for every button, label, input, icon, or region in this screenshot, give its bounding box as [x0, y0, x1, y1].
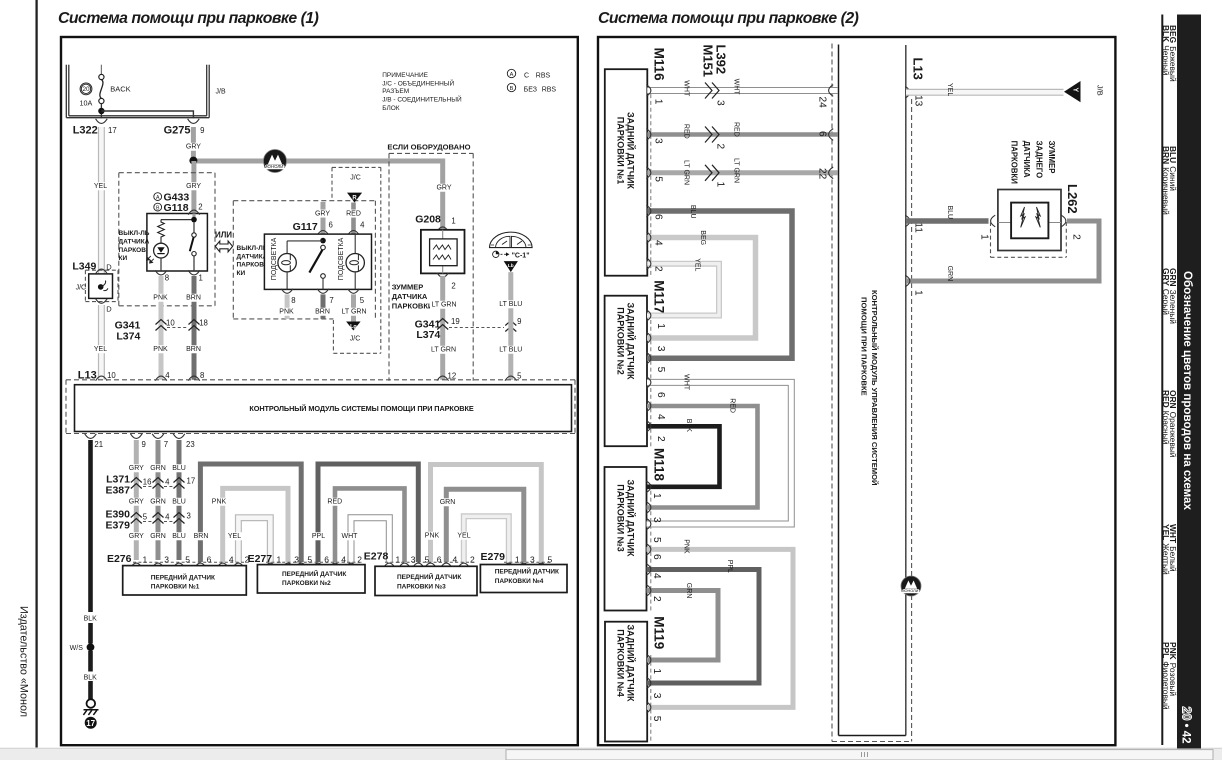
svg-text:1: 1 — [651, 668, 662, 674]
wire GRY G275 to junction — [191, 127, 196, 161]
svg-text:БЛОК: БЛОК — [382, 105, 400, 112]
svg-text:3: 3 — [411, 554, 416, 564]
svg-text:10: 10 — [107, 371, 116, 380]
svg-text:BACK: BACK — [110, 85, 130, 94]
M117 pin 1 — [646, 310, 651, 322]
svg-text:GRN: GRN — [150, 499, 166, 506]
loop labels group3 — [424, 532, 439, 540]
svg-text:10A: 10A — [80, 99, 93, 108]
label GRY at G117 — [315, 210, 330, 218]
svg-text:4: 4 — [651, 573, 662, 579]
svg-text:PPL: PPL — [312, 533, 325, 540]
scrollbar grip — [862, 752, 868, 757]
svg-text:ДАТЧИКА: ДАТЧИКА — [237, 253, 268, 260]
connector L371/E387 — [105, 474, 195, 497]
module pin 11 wire BLU to L262 — [905, 215, 910, 227]
svg-text:E276: E276 — [107, 553, 132, 565]
fuse 20 10A BACK — [80, 65, 131, 119]
svg-text:Издательство «Монол: Издательство «Монол — [18, 606, 30, 717]
svg-text:BRN: BRN — [194, 533, 209, 540]
note text — [382, 72, 462, 112]
svg-text:ЗАДНИЙ ДАТЧИК: ЗАДНИЙ ДАТЧИК — [626, 302, 637, 380]
svg-text:BLKЧерный: BLKЧерный — [1161, 25, 1171, 76]
wire WHT loop E277.2 to E278.1 — [351, 518, 389, 562]
E276 pin 2 — [233, 563, 245, 568]
wire YEL loop E276.2 to E277.1 — [238, 518, 270, 562]
ground id 17 — [85, 717, 97, 729]
svg-text:A: A — [510, 72, 514, 78]
svg-text:17: 17 — [187, 477, 196, 486]
svg-text:3: 3 — [651, 693, 662, 699]
wire RED loop M117.4 to M118.3 — [647, 406, 758, 508]
module pin 6 right — [829, 129, 834, 141]
svg-text:3: 3 — [187, 512, 191, 521]
svg-text:4: 4 — [341, 554, 346, 564]
switch G433 box — [147, 214, 208, 272]
svg-text:10: 10 — [166, 319, 175, 328]
legend B BEZ RBS — [507, 83, 556, 93]
M117 pin 6 — [646, 377, 651, 389]
svg-text:LT GRN: LT GRN — [683, 160, 690, 185]
svg-text:BRN: BRN — [186, 346, 201, 353]
svg-text:J/B: J/B — [1096, 85, 1105, 96]
svg-text:ЗАДНИЙ ДАТЧИК: ЗАДНИЙ ДАТЧИК — [626, 479, 637, 557]
svg-text:2: 2 — [470, 554, 475, 564]
wire YEL L349 to L13 — [98, 305, 105, 380]
svg-text:17: 17 — [86, 719, 95, 728]
wire PNK loop E276.4 to E277.3 — [223, 488, 288, 562]
svg-text:GRY: GRY — [315, 210, 330, 217]
L392 break pin 3 — [705, 83, 719, 99]
svg-text:3: 3 — [651, 517, 662, 523]
wire YEL L13 to J/B arrow — [906, 89, 1064, 96]
svg-text:5: 5 — [548, 554, 553, 564]
svg-text:Lb: Lb — [508, 263, 514, 269]
svg-text:ДАТЧИКА: ДАТЧИКА — [119, 239, 150, 246]
M119 pin 3 — [646, 677, 651, 689]
buzzer rear text — [1010, 141, 1057, 185]
wire PNK G433 to module — [159, 276, 164, 380]
bus labels row3 — [129, 532, 144, 540]
module pin 12 — [437, 376, 449, 381]
svg-text:PNK: PNK — [279, 309, 294, 316]
J/C triangle R — [347, 193, 362, 203]
svg-text:GRY: GRY — [129, 533, 144, 540]
svg-text:5: 5 — [651, 537, 662, 543]
svg-text:4: 4 — [653, 240, 664, 246]
svg-text:3: 3 — [530, 554, 535, 564]
svg-text:BLU: BLU — [172, 499, 186, 506]
svg-text:R: R — [352, 195, 357, 201]
connector G275 pin 9 — [164, 119, 205, 137]
G433 pin 8 — [155, 270, 167, 275]
svg-text:1: 1 — [715, 182, 726, 188]
G433 pin 1 — [188, 270, 200, 275]
svg-text:REDКрасный: REDКрасный — [1161, 390, 1171, 445]
front sensor 4 box — [480, 565, 567, 593]
svg-text:J/C - ОБЪЕДИНЕННЫЙ: J/C - ОБЪЕДИНЕННЫЙ — [382, 79, 454, 88]
svg-text:21: 21 — [94, 440, 103, 449]
svg-text:RED: RED — [346, 210, 361, 217]
G117 pin 8 — [281, 289, 293, 294]
svg-text:RED: RED — [683, 124, 690, 139]
svg-text:E379: E379 — [105, 520, 130, 532]
loop labels group1 — [193, 532, 208, 540]
svg-text:6: 6 — [437, 554, 442, 564]
label PNK x2 — [153, 294, 168, 302]
control module box right — [839, 45, 906, 736]
svg-text:4: 4 — [165, 513, 170, 522]
switch G117 dashed boundary — [233, 200, 375, 202]
M116 pin 6 — [646, 205, 651, 217]
svg-text:ПАРКОВКИ №2: ПАРКОВКИ №2 — [615, 307, 625, 374]
svg-text:BEG: BEG — [699, 230, 706, 245]
svg-text:GRN: GRN — [946, 266, 953, 282]
svg-text:BRNКоричневый: BRNКоричневый — [1161, 146, 1171, 215]
svg-text:6: 6 — [651, 554, 662, 560]
panel 1 frame — [61, 37, 578, 745]
wire PPL loop E277.6 to E278.5 — [318, 464, 418, 562]
svg-text:GRY: GRY — [129, 499, 144, 506]
wire BRN G117 stub — [321, 294, 326, 319]
svg-text:PNK: PNK — [153, 295, 168, 302]
pin 2 chevron G433 — [188, 210, 200, 215]
svg-text:ВЫКЛ-ЛЬ: ВЫКЛ-ЛЬ — [237, 245, 268, 252]
wire GRY junction to G433 — [191, 161, 196, 214]
svg-text:M119: M119 — [652, 616, 667, 649]
svg-text:Система помощи при парковке (2: Система помощи при парковке (2) — [598, 10, 859, 27]
svg-text:1: 1 — [396, 554, 401, 564]
svg-text:RBS: RBS — [542, 86, 557, 93]
svg-text:L374: L374 — [116, 330, 140, 342]
svg-text:КИ: КИ — [119, 255, 128, 262]
connector L322 pin 17 — [73, 119, 117, 137]
svg-text:YEL: YEL — [946, 83, 953, 96]
svg-text:BLK: BLK — [84, 616, 98, 623]
E276 pin 5 — [173, 563, 185, 568]
svg-text:9: 9 — [200, 126, 204, 135]
svg-text:1: 1 — [653, 99, 664, 105]
svg-text:ЗУММЕР: ЗУММЕР — [1047, 141, 1056, 174]
svg-text:ПАРКОВКИ: ПАРКОВКИ — [392, 302, 434, 311]
M118 pin 3 — [646, 502, 651, 514]
E278 pin 4 — [441, 563, 453, 568]
node junction G275/GRY — [189, 157, 197, 165]
svg-text:M118: M118 — [652, 448, 667, 482]
svg-text:BRN: BRN — [186, 295, 201, 302]
E278 pin 6 — [425, 563, 437, 568]
wire inside J/B from fuse to G275 — [98, 108, 104, 114]
module pin 24 — [829, 85, 834, 97]
rear sensor 4 box — [605, 622, 647, 742]
svg-text:M151: M151 — [701, 45, 716, 78]
svg-text:22: 22 — [817, 168, 828, 180]
svg-text:RED: RED — [729, 398, 736, 413]
svg-text:МОНОЛИТ: МОНОЛИТ — [264, 164, 287, 169]
svg-text:ДАТЧИКА: ДАТЧИКА — [392, 292, 428, 301]
svg-text:PPLФиолетовый: PPLФиолетовый — [1161, 642, 1171, 710]
svg-text:12: 12 — [448, 372, 457, 381]
E279 pin 5 — [536, 563, 548, 568]
module bottom pins 21 9 7 23 — [85, 434, 195, 449]
svg-text:ПЕРЕДНИЙ ДАТЧИК: ПЕРЕДНИЙ ДАТЧИК — [397, 572, 461, 581]
svg-text:4: 4 — [165, 371, 170, 380]
svg-text:ПАРКОВКИ №4: ПАРКОВКИ №4 — [615, 629, 625, 696]
E278 pin 3 — [399, 563, 411, 568]
svg-text:GRY: GRY — [129, 465, 144, 472]
svg-text:9: 9 — [142, 440, 146, 449]
M119 pin 5 — [646, 702, 651, 714]
ground symbol — [83, 699, 98, 715]
svg-text:2: 2 — [655, 436, 666, 442]
svg-text:КОНТРОЛЬНЫЙ МОДУЛЬ УПРАВЛЕНИЯ: КОНТРОЛЬНЫЙ МОДУЛЬ УПРАВЛЕНИЯ СИСТЕМОЙ — [870, 290, 879, 485]
OR symbol ILI — [215, 231, 233, 252]
ESLI OBORUDOVANO dashed box — [389, 152, 473, 154]
panel 2 frame — [598, 37, 1115, 745]
svg-text:D: D — [106, 305, 112, 314]
svg-text:PNK: PNK — [153, 346, 168, 353]
wire BRN G433 to module — [192, 276, 197, 380]
svg-text:YEL: YEL — [94, 183, 107, 190]
svg-text:4: 4 — [453, 554, 458, 564]
svg-text:B: B — [156, 205, 160, 211]
svg-text:2: 2 — [357, 554, 362, 564]
svg-text:BRN: BRN — [315, 309, 330, 316]
svg-text:6: 6 — [324, 554, 329, 564]
svg-text:E278: E278 — [364, 551, 389, 563]
M116 boundary dashes — [650, 87, 652, 275]
svg-text:1: 1 — [913, 290, 924, 296]
svg-text:ПАРКОВКИ №1: ПАРКОВКИ №1 — [151, 584, 200, 591]
svg-text:GRY: GRY — [186, 144, 201, 151]
wire BLK module to ground — [88, 440, 93, 612]
svg-text:PPL: PPL — [726, 560, 733, 573]
svg-text:РАЗЪЕМ: РАЗЪЕМ — [382, 88, 409, 95]
connector E390/E379 — [105, 509, 190, 532]
E278 pin 5 — [413, 563, 425, 568]
svg-text:6: 6 — [329, 220, 333, 229]
svg-text:8: 8 — [200, 371, 204, 380]
wire GRN bus module to E276 pin3 — [156, 440, 161, 560]
M117 pin 4 — [646, 400, 651, 412]
G433 internal circuit — [147, 214, 197, 272]
monolit logo right — [901, 576, 921, 596]
svg-text:BLU: BLU — [689, 205, 696, 219]
svg-text:WHT: WHT — [342, 533, 359, 540]
wire BLK loop M117.2 to M118.1 — [647, 426, 720, 487]
svg-text:BLK: BLK — [84, 675, 98, 682]
rear sensor 3 box — [605, 467, 647, 611]
svg-text:ДАТЧИКА: ДАТЧИКА — [1022, 141, 1031, 178]
svg-text:YEL: YEL — [694, 258, 701, 271]
connector L13 pin 10 — [78, 370, 117, 382]
svg-text:19: 19 — [451, 317, 460, 326]
bus labels row2 — [129, 498, 144, 506]
svg-text:E387: E387 — [105, 485, 130, 497]
M116 pin 1 — [646, 85, 651, 97]
bus labels row1 — [129, 464, 144, 472]
E277 pin 2 — [345, 563, 357, 568]
wire YEL loop E278.2 to E279.1 — [464, 516, 509, 562]
E276 pin 1 — [131, 563, 143, 568]
svg-text:ВЫКЛ-ЛЬ: ВЫКЛ-ЛЬ — [119, 230, 150, 237]
legend GRN/GRY — [1161, 268, 1178, 324]
label GRY at G208 — [436, 184, 451, 192]
M116 pin 2 — [646, 258, 651, 270]
svg-text:ЗАДНЕГО: ЗАДНЕГО — [1035, 141, 1044, 179]
svg-text:7: 7 — [164, 440, 168, 449]
M118 pin 4 — [646, 564, 651, 576]
svg-text:WHT: WHT — [732, 79, 739, 96]
label BRN G117 — [315, 308, 330, 316]
wire GRN loop M118.2 to M119.1 — [647, 591, 719, 661]
buzzer G208 box — [421, 230, 465, 274]
left page rule — [35, 0, 37, 748]
wire GRN L262 to module pin 1 — [906, 221, 1099, 281]
gauge cluster icon C-1 — [490, 232, 533, 247]
svg-text:9: 9 — [517, 317, 521, 326]
svg-text:GRN: GRN — [685, 583, 692, 599]
sidebar black band — [1177, 15, 1201, 749]
svg-text:1: 1 — [277, 554, 282, 564]
svg-text:2: 2 — [1071, 234, 1082, 240]
junction block J/B — [66, 65, 226, 118]
buzzer L262 dashed boundary — [990, 222, 992, 257]
svg-text:13: 13 — [913, 95, 924, 107]
label BLK lower — [83, 674, 98, 682]
wire PNK loop E278.6 to E279.5 — [431, 465, 542, 563]
L392 break pin 2 — [705, 127, 719, 143]
M118 pin 6 — [646, 544, 651, 556]
svg-text:YELЖелтый: YELЖелтый — [1161, 524, 1171, 575]
E277 pin 5 — [295, 563, 307, 568]
svg-text:1: 1 — [979, 234, 990, 240]
svg-text:L322: L322 — [73, 125, 98, 137]
parking assist control module — [66, 380, 575, 434]
buzzer L262 box — [998, 190, 1061, 251]
svg-text:J/B: J/B — [216, 88, 226, 95]
wire RED from R to G117 pin 4 — [351, 203, 356, 235]
svg-text:4: 4 — [360, 220, 365, 229]
svg-text:КОНТРОЛЬНЫЙ МОДУЛЬ СИСТЕМЫ ПОМ: КОНТРОЛЬНЫЙ МОДУЛЬ СИСТЕМЫ ПОМОЩИ ПРИ ПА… — [249, 404, 473, 413]
svg-text:1: 1 — [451, 217, 455, 226]
svg-text:6: 6 — [817, 131, 828, 137]
svg-text:GRN: GRN — [150, 465, 166, 472]
M118 pin 2 — [646, 585, 651, 597]
svg-text:4: 4 — [655, 414, 666, 420]
svg-text:17: 17 — [108, 126, 117, 135]
svg-text:24: 24 — [817, 97, 828, 109]
svg-text:1: 1 — [655, 323, 666, 329]
M117 pin 3 — [646, 332, 651, 344]
svg-text:LT BLU: LT BLU — [499, 301, 522, 308]
svg-text:J/C: J/C — [76, 285, 87, 292]
E277 pin 1 — [265, 563, 277, 568]
svg-text:C: C — [524, 72, 529, 79]
svg-text:Обозначение цветов проводов на: Обозначение цветов проводов на схемах — [1181, 271, 1194, 511]
svg-text:BLK: BLK — [685, 419, 692, 433]
svg-text:B: B — [510, 86, 514, 92]
label GRY — [186, 143, 201, 151]
svg-text:ПОМОЩИ ПРИ ПАРКОВКЕ: ПОМОЩИ ПРИ ПАРКОВКЕ — [860, 297, 869, 396]
svg-text:BLU: BLU — [946, 206, 953, 220]
wire PNK loop M118.6 to M119.5 — [647, 549, 794, 707]
E277 pin 3 — [282, 563, 294, 568]
M116 pin 4 — [646, 232, 651, 244]
label RED — [346, 210, 361, 218]
wire YEL loop M116.2 to M117.1 — [647, 264, 719, 316]
rear sensor 1 box — [605, 69, 648, 276]
svg-text:PNK: PNK — [212, 499, 227, 506]
L392 break pin 1 — [705, 165, 719, 181]
svg-text:PNK: PNK — [425, 533, 440, 540]
L262 pin 2 — [1061, 215, 1066, 227]
svg-text:J/B - СОЕДИНИТЕЛЬНЫЙ: J/B - СОЕДИНИТЕЛЬНЫЙ — [382, 95, 462, 104]
svg-text:LT GRN: LT GRN — [431, 347, 456, 354]
wire GRN loop E278.4 to E279.3 — [446, 489, 524, 562]
svg-text:G117: G117 — [293, 221, 318, 233]
legend WHT/YEL — [1161, 524, 1178, 575]
node W/S splice — [87, 643, 95, 651]
svg-text:J/C: J/C — [350, 175, 361, 182]
module pin 8 top — [188, 376, 200, 381]
svg-text:20: 20 — [1180, 707, 1194, 721]
label LT GRN G117 — [340, 308, 368, 316]
svg-text:RED: RED — [327, 499, 342, 506]
connector L349 J/C — [72, 261, 118, 314]
svg-text:3: 3 — [653, 138, 664, 144]
wire LT GRN G117 to Lg — [351, 294, 356, 321]
module pin 1 right — [905, 275, 910, 287]
sidebar rule — [1161, 15, 1163, 746]
svg-text:БЕЗ: БЕЗ — [524, 86, 537, 93]
svg-text:ПАРКОВКИ №4: ПАРКОВКИ №4 — [495, 578, 544, 585]
connector L392/M151 — [701, 45, 729, 78]
svg-text:3: 3 — [655, 346, 666, 352]
svg-text:LT GRN: LT GRN — [341, 309, 366, 316]
svg-text:1: 1 — [199, 274, 203, 283]
M116 pin 3 — [646, 129, 651, 141]
svg-text:23: 23 — [186, 440, 195, 449]
front sensor 3 box — [375, 566, 477, 595]
legend PNK/PPL — [1161, 642, 1178, 710]
svg-text:BLU: BLU — [172, 533, 186, 540]
svg-text:ПАРКОВКИ №3: ПАРКОВКИ №3 — [615, 484, 625, 551]
svg-text:4: 4 — [165, 478, 170, 487]
svg-text:6: 6 — [655, 392, 666, 398]
wire GRY bus module to E276 pin1 — [134, 440, 139, 560]
svg-text:Система помощи при парковке (1: Система помощи при парковке (1) — [58, 10, 319, 27]
rear sensor 2 box — [605, 296, 647, 447]
svg-text:3: 3 — [294, 554, 299, 564]
main GRY wire to G208 branch — [193, 161, 442, 230]
label YEL — [93, 182, 108, 190]
svg-text:YEL: YEL — [94, 346, 107, 353]
connector E278 — [364, 551, 475, 563]
svg-text:WHT: WHT — [683, 80, 690, 97]
E277 pin 4 — [329, 563, 341, 568]
svg-text:M117: M117 — [652, 280, 667, 313]
J/C triangle Lg — [346, 322, 361, 331]
svg-text:2: 2 — [715, 144, 726, 150]
wire PPL loop M118.4 to M119.3 — [647, 570, 760, 684]
svg-text:L262: L262 — [1065, 184, 1080, 214]
svg-text:8: 8 — [291, 296, 295, 305]
svg-text:ЗАДНИЙ ДАТЧИК: ЗАДНИЙ ДАТЧИК — [626, 624, 637, 702]
buzzer text — [392, 283, 434, 311]
C-1 reference — [493, 251, 530, 259]
svg-text:16: 16 — [143, 478, 152, 487]
